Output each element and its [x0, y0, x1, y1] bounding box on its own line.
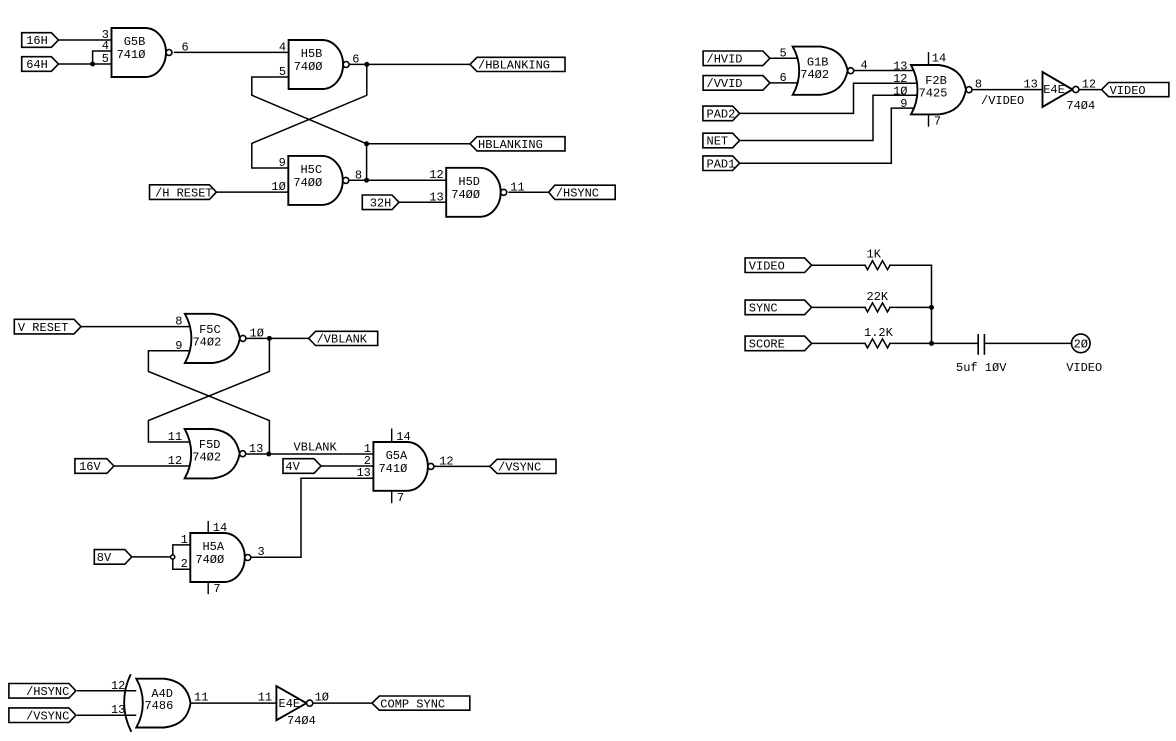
svg-text:13: 13: [249, 442, 263, 456]
svg-text:13: 13: [429, 190, 443, 204]
svg-text:/VSYNC: /VSYNC: [26, 709, 69, 723]
node flag 64H (input): [22, 57, 59, 72]
pin 7 tick F2B: [929, 114, 942, 128]
svg-text:11: 11: [168, 430, 182, 444]
svg-text:12: 12: [168, 454, 182, 468]
svg-text:16H: 16H: [26, 34, 48, 48]
node flag SCORE (input): [745, 336, 812, 352]
svg-text:VBLANK: VBLANK: [294, 441, 338, 455]
svg-text:12: 12: [1082, 78, 1096, 92]
wire H5C out to H5D pin 12: [349, 179, 446, 181]
svg-text:3: 3: [258, 545, 265, 559]
svg-text:/VVID: /VVID: [707, 77, 743, 91]
svg-text:1Ø: 1Ø: [315, 691, 329, 705]
node flag 16V (input): [75, 459, 114, 475]
junction 8V branch (open): [171, 555, 175, 559]
node flag SYNC (input): [745, 300, 812, 316]
svg-text:/VSYNC: /VSYNC: [498, 461, 541, 475]
svg-text:/H RESET: /H RESET: [155, 186, 213, 200]
svg-text:G5A: G5A: [386, 449, 408, 463]
svg-text:VIDEO: VIDEO: [749, 259, 785, 273]
svg-text:H5B: H5B: [301, 47, 323, 61]
junction H5B output node: [364, 62, 369, 67]
wire R 22K to summing node: [890, 306, 932, 308]
svg-text:PAD2: PAD2: [707, 108, 736, 122]
resistor R 22K: [865, 290, 890, 312]
svg-text:7: 7: [397, 491, 404, 505]
svg-text:E4E: E4E: [1043, 83, 1065, 97]
wire R 1K to summing node: [890, 265, 932, 343]
svg-text:PAD1: PAD1: [707, 157, 736, 171]
wire V RESET to F5C pin 8: [82, 326, 192, 328]
svg-text:14: 14: [932, 52, 946, 66]
svg-text:74Ø2: 74Ø2: [192, 451, 221, 465]
svg-text:SCORE: SCORE: [749, 338, 785, 352]
svg-text:NET: NET: [707, 135, 729, 149]
svg-text:14: 14: [396, 430, 410, 444]
junction summing node a: [929, 305, 934, 310]
svg-text:VIDEO: VIDEO: [1110, 84, 1146, 98]
svg-text:12: 12: [439, 454, 453, 468]
svg-text:12: 12: [111, 679, 125, 693]
svg-text:/HSYNC: /HSYNC: [556, 187, 599, 201]
svg-text:8V: 8V: [97, 551, 112, 565]
wire /VVID to G1B pin 6: [770, 82, 800, 84]
wire R 1.2K to capacitor: [890, 342, 978, 344]
wire H5C out cross to H5B pin 5: [252, 77, 367, 144]
node flag 16H (input): [22, 33, 59, 49]
svg-text:6: 6: [352, 52, 359, 66]
svg-text:13: 13: [111, 703, 125, 717]
svg-text:/HBLANKING: /HBLANKING: [478, 59, 550, 73]
svg-text:32H: 32H: [370, 197, 392, 211]
wire /VSYNC to A4D pin 13: [78, 714, 136, 716]
pin 14 tick H5A: [208, 521, 227, 535]
wire PAD1 to F2B pin 9: [739, 108, 917, 163]
gate H5C 7400: [288, 156, 349, 205]
svg-text:22K: 22K: [867, 290, 889, 304]
wire /HSYNC to A4D pin 12: [78, 690, 136, 692]
wire 16V to F5D pin 12: [115, 465, 192, 467]
svg-text:8: 8: [175, 315, 182, 329]
gate A4D 7486: [124, 675, 190, 731]
svg-text:11: 11: [510, 180, 524, 194]
svg-text:7486: 7486: [144, 699, 173, 713]
node flag /HVID (input): [703, 51, 770, 67]
svg-text:74Ø2: 74Ø2: [192, 335, 221, 349]
svg-text:741Ø: 741Ø: [378, 462, 407, 476]
svg-text:11: 11: [258, 691, 272, 705]
svg-text:13: 13: [1023, 78, 1037, 92]
gate G5A 7410: [373, 442, 434, 491]
node flag /VSYNC (out) (output): [490, 459, 556, 474]
node flag /VBLANK (output): [309, 331, 378, 346]
node flag 4V (input): [283, 459, 321, 475]
node flag /HSYNC (in) (input): [9, 684, 76, 700]
wire 16H to G5B pin 3: [58, 39, 112, 41]
svg-text:7425: 7425: [919, 87, 948, 101]
wire node to HBLANKING flag: [367, 143, 470, 145]
wire A4D out to E4E pin 11: [191, 702, 277, 704]
svg-text:5: 5: [279, 65, 286, 79]
gate G5B 7410: [112, 28, 173, 77]
svg-text:2: 2: [181, 557, 188, 571]
junction F5C output node: [267, 336, 272, 341]
resistor R 1K: [865, 248, 890, 270]
gate H5B 7400: [289, 40, 350, 89]
wire H5A out to G5A pin 13: [251, 478, 374, 557]
svg-text:G5B: G5B: [124, 35, 146, 49]
wire 4V to G5A pin 2: [320, 465, 374, 467]
svg-text:9: 9: [175, 339, 182, 353]
node flag COMP SYNC (output): [372, 696, 470, 711]
svg-text:5uf 1ØV: 5uf 1ØV: [956, 361, 1007, 375]
svg-text:9: 9: [279, 156, 286, 170]
wire VIDEO to R 1K: [812, 264, 865, 266]
svg-text:/VIDEO: /VIDEO: [981, 94, 1024, 108]
wire SYNC to R 22K: [812, 306, 865, 308]
node flag HBLANKING (output): [470, 137, 565, 152]
svg-text:COMP SYNC: COMP SYNC: [380, 697, 445, 711]
resistor R 1.2K: [864, 326, 894, 348]
gate G1B 7402: [793, 47, 854, 95]
node flag VIDEO (input): [745, 258, 812, 274]
svg-text:/HSYNC: /HSYNC: [26, 685, 69, 699]
gate F5D 7402: [185, 429, 246, 478]
wire SCORE to R 1.2K: [812, 342, 865, 344]
svg-text:6: 6: [182, 40, 189, 54]
node flag /H RESET (input): [150, 185, 217, 201]
svg-text:74Ø2: 74Ø2: [800, 68, 829, 82]
node flag PAD1 (input): [703, 156, 740, 172]
junction 64H branch: [90, 62, 95, 67]
node flag 32H (input): [362, 195, 399, 211]
svg-text:64H: 64H: [26, 58, 48, 72]
gate F2B 7425: [911, 65, 972, 114]
junction H5C output node: [364, 178, 369, 183]
wire H5C out riser to HBLANKING node: [366, 144, 368, 180]
svg-text:74Ø4: 74Ø4: [1066, 99, 1095, 113]
svg-text:SYNC: SYNC: [749, 302, 778, 316]
wire PAD2 to F2B pin 12: [739, 83, 917, 113]
svg-text:14: 14: [213, 521, 227, 535]
svg-text:8: 8: [355, 168, 362, 182]
pin 7 tick H5A: [208, 582, 220, 596]
svg-text:/HVID: /HVID: [707, 53, 743, 67]
node flag 8V (input): [94, 550, 132, 566]
svg-text:H5A: H5A: [202, 540, 224, 554]
svg-text:74Ø4: 74Ø4: [287, 714, 316, 728]
svg-text:1Ø: 1Ø: [271, 180, 285, 194]
node flag /VSYNC (in) (input): [9, 708, 76, 724]
wire 8V to H5A pins 1 and 2: [132, 556, 173, 558]
wire H5B out cross to H5C pin 9: [252, 64, 367, 168]
svg-text:4: 4: [279, 40, 286, 54]
wire NET to F2B pin 10: [739, 95, 917, 140]
node flag V RESET (input): [14, 319, 81, 335]
svg-text:V RESET: V RESET: [18, 321, 68, 335]
wire F5C out cross to F5D pin 11: [148, 338, 269, 442]
wire G5A out to /VSYNC: [434, 465, 490, 467]
svg-text:16V: 16V: [79, 460, 101, 474]
svg-text:/VBLANK: /VBLANK: [317, 333, 368, 347]
wire /HVID to G1B pin 5: [770, 57, 800, 59]
svg-text:11: 11: [194, 691, 208, 705]
wire 64H to G5B pin 5: [58, 63, 111, 65]
svg-text:1Ø: 1Ø: [250, 326, 264, 340]
svg-text:1: 1: [181, 533, 188, 547]
svg-text:H5C: H5C: [300, 163, 322, 177]
wire F5C out to /VBLANK: [246, 337, 309, 339]
wire F2B out /VIDEO to E4E pin 13: [972, 89, 1043, 91]
svg-text:E4E: E4E: [279, 697, 301, 711]
svg-text:1K: 1K: [867, 248, 882, 262]
gate E4E 7404 (video) inverter: [1043, 72, 1079, 107]
wire H5B out to /HBLANKING: [349, 63, 470, 65]
junction summing node b: [929, 341, 934, 346]
node flag /HBLANKING (output): [470, 57, 565, 72]
svg-text:VIDEO: VIDEO: [1066, 361, 1102, 375]
node flag PAD2 (input): [703, 106, 740, 122]
svg-text:5: 5: [102, 52, 109, 66]
gate F5C 7402: [185, 314, 246, 363]
node flag /VVID (input): [703, 76, 770, 92]
wire G5B out to H5B pin 4: [175, 51, 289, 53]
capacitor C1 5uf 10V: [956, 335, 1007, 375]
wire 32H to H5D pin 13: [399, 201, 446, 203]
wire H5D out to /HSYNC: [509, 191, 549, 193]
wire F5D out cross to F5C pin 9: [148, 351, 269, 454]
gate E4E 7404 (comp sync) inverter: [276, 686, 312, 720]
wire /H RESET to H5C pin 10: [217, 191, 288, 193]
wire G1B out to F2B pin 13: [854, 70, 917, 72]
node flag /HSYNC (out) (output): [549, 185, 616, 200]
wire capacitor to output pad 20: [985, 342, 1072, 344]
svg-text:5: 5: [779, 46, 786, 60]
junction HBLANKING node: [364, 141, 369, 146]
svg-text:741Ø: 741Ø: [117, 48, 146, 62]
svg-text:4: 4: [861, 59, 868, 73]
junction F5D output node: [266, 452, 271, 457]
gate H5A 7400: [190, 533, 251, 582]
svg-text:74ØØ: 74ØØ: [294, 60, 323, 74]
svg-text:12: 12: [429, 168, 443, 182]
svg-text:74ØØ: 74ØØ: [293, 176, 322, 190]
connector pad 20 VIDEO: [1066, 334, 1102, 375]
svg-text:74ØØ: 74ØØ: [195, 553, 224, 567]
wire bracket H5A pins 1-2: [173, 545, 191, 569]
node flag VIDEO (out) (output): [1102, 83, 1169, 98]
svg-text:8: 8: [975, 78, 982, 92]
pin 14 tick G5A: [392, 429, 411, 444]
wire E4E out to VIDEO flag: [1079, 89, 1101, 91]
wire branch to G5B pin 4: [93, 51, 112, 64]
wire E4E out to COMP SYNC: [313, 702, 372, 704]
node flag NET (input): [703, 133, 740, 149]
svg-text:4V: 4V: [285, 460, 300, 474]
svg-text:H5D: H5D: [458, 175, 480, 189]
svg-text:6: 6: [779, 71, 786, 85]
gate H5D 7400: [446, 168, 507, 217]
pin 14 tick F2B: [929, 52, 947, 66]
svg-text:7: 7: [213, 582, 220, 596]
svg-text:13: 13: [356, 466, 370, 480]
svg-text:1.2K: 1.2K: [864, 326, 894, 340]
wire F5D out VBLANK to G5A pin 1: [246, 453, 374, 455]
svg-text:74ØØ: 74ØØ: [451, 188, 480, 202]
svg-text:7: 7: [934, 115, 941, 129]
svg-text:HBLANKING: HBLANKING: [478, 138, 543, 152]
svg-text:2Ø: 2Ø: [1074, 338, 1088, 352]
svg-text:9: 9: [900, 97, 907, 111]
pin 7 tick G5A: [392, 491, 405, 505]
svg-text:4: 4: [102, 39, 109, 53]
